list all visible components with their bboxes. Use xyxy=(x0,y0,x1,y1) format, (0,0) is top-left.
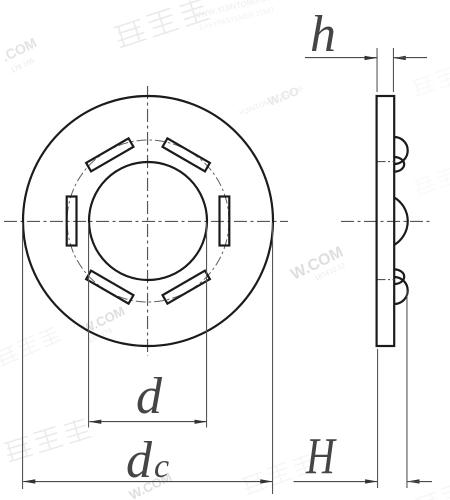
watermark logo top xyxy=(113,0,210,49)
tab 0deg (right) xyxy=(220,197,230,246)
tab 60deg (upper right) xyxy=(163,138,210,171)
dimension line h left tail xyxy=(305,57,377,59)
dimension line H left tail xyxy=(294,481,378,483)
outer circle xyxy=(23,96,273,346)
tick lower lug axis xyxy=(378,279,395,281)
tab 120deg (upper left) xyxy=(86,138,133,171)
extension line d left xyxy=(88,223,90,428)
watermark chars bottom-right corner xyxy=(415,472,450,500)
arrow d right xyxy=(195,420,208,424)
middle lug arc xyxy=(394,197,408,245)
watermark faint top-right xyxy=(411,58,450,97)
extension line h right xyxy=(392,48,394,92)
dimension line d xyxy=(89,421,206,423)
tab 240deg (lower left) xyxy=(86,271,133,304)
arrow d left xyxy=(89,420,102,424)
watermark logo bottom-left xyxy=(3,417,92,463)
tab 300deg (lower right) xyxy=(163,271,210,304)
extension line dc left xyxy=(22,223,24,490)
extension line h left xyxy=(376,48,378,92)
tab 180deg (left) xyxy=(67,197,77,246)
svg-text:d: d xyxy=(136,368,163,425)
svg-text:d: d xyxy=(126,432,153,489)
watermark chars bottom-middle xyxy=(241,452,317,495)
arrow dc left xyxy=(23,479,36,483)
arrow dc right xyxy=(260,479,273,483)
arrow H right xyxy=(407,479,420,483)
extension line H right xyxy=(406,290,408,488)
svg-text:YIJINTONG 12547 BF: YIJINTONG 12547 BF xyxy=(238,85,305,118)
arrow h right xyxy=(393,56,406,60)
watermark chars left edge xyxy=(0,325,61,367)
dimension line h right tail xyxy=(394,57,427,59)
extension line H left xyxy=(377,349,379,488)
tick upper lug axis xyxy=(378,161,395,163)
centerline horizontal (front view) xyxy=(4,220,288,222)
svg-text:c: c xyxy=(154,448,169,485)
arrow H left xyxy=(365,479,378,483)
svg-text:H: H xyxy=(305,429,337,486)
arrow h left xyxy=(365,56,378,60)
watermark chars bottom-right xyxy=(413,159,450,195)
svg-text:h: h xyxy=(310,6,336,63)
upper lug big arc xyxy=(394,137,408,164)
dimension line dc xyxy=(23,481,272,483)
centerline horizontal (side view) xyxy=(341,220,433,222)
pitch circle (dash-dot) xyxy=(67,140,229,302)
lower lug small arc xyxy=(394,269,404,284)
extension line d right xyxy=(206,223,208,428)
centerline vertical (front view) xyxy=(147,86,149,356)
dimension line H right tail xyxy=(408,481,433,483)
washer body side rect xyxy=(377,96,395,346)
extension line dc right xyxy=(272,223,274,495)
lower lug big arc xyxy=(394,277,408,304)
hole circle xyxy=(89,162,207,280)
upper lug small arc xyxy=(394,157,404,172)
